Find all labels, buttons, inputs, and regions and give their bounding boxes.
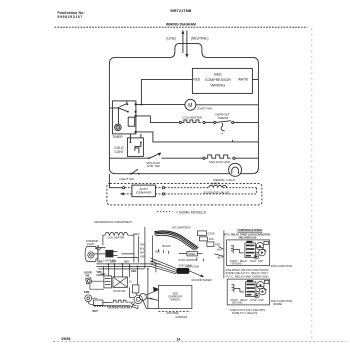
compressor detail box [158, 285, 192, 308]
svg-text:2150649: 2150649 [175, 315, 187, 319]
footer page number [176, 337, 180, 341]
label DEFROST THERM [215, 113, 230, 121]
resistor pictorial coil heater [102, 233, 134, 240]
wire unit compartment verticals [145, 227, 153, 269]
svg-text:RED: RED [193, 77, 200, 81]
svg-text:BLK: BLK [140, 247, 145, 250]
neutral conductor with down arrow [185, 30, 188, 58]
timer pictorial box [179, 251, 203, 256]
svg-text:GROUND: GROUND [231, 264, 242, 266]
header perforation rule [54, 26, 307, 28]
footer perforation rule [53, 340, 346, 342]
svg-text:SW: SW [85, 274, 90, 277]
label WATER [211, 183, 220, 186]
label RUN CAPACITOR box1 [271, 264, 292, 268]
compressor shell terminal circle [140, 287, 159, 309]
svg-text:4 PIN CONN: 4 PIN CONN [185, 265, 199, 268]
terminal icemaker right bottom [162, 193, 164, 195]
tiny labels cluster [100, 273, 132, 293]
svg-text:TIMER: TIMER [188, 253, 196, 256]
wire lamp to switch [94, 253, 106, 255]
connector plug [176, 265, 192, 274]
line conductor with up arrow [181, 30, 184, 53]
label RUN CAPACITOR SOME box2 [271, 299, 292, 306]
wire icemaker feed from border [109, 174, 122, 188]
wire bracket vertical [255, 188, 257, 194]
terminal defrost therm right [232, 121, 234, 123]
svg-text:WHT: WHT [150, 262, 156, 264]
svg-text:THERM: THERM [217, 116, 228, 120]
svg-text:BLU: BLU [124, 262, 129, 264]
junction dots bus [108, 263, 149, 270]
label COMPRESSOR WIRING underlined [237, 228, 262, 232]
tiny right terminal labels [217, 248, 223, 259]
resistor coil heater [182, 120, 201, 123]
svg-text:COLD CONTROL: COLD CONTROL [178, 259, 198, 262]
wire dashed bottom row [165, 193, 257, 195]
wire compressor feed vertical [140, 79, 142, 104]
label see compressor wiring [205, 71, 231, 87]
auto icemaker box [132, 185, 156, 197]
junction evap fan [141, 104, 143, 106]
harness thick cable [154, 231, 198, 250]
svg-text:GROUND SCREW: GROUND SCREW [191, 279, 212, 282]
harness fan-out diagonals [150, 258, 176, 274]
label BLACK [162, 244, 171, 248]
wire horizontal bus lines [96, 264, 160, 269]
label (LINE) [166, 36, 176, 40]
terminal icemaker feed [123, 187, 125, 189]
wire bus right of lamp [98, 245, 106, 260]
switch mullion heater [148, 153, 161, 159]
svg-text:WHT: WHT [217, 256, 223, 259]
ground lug circle [85, 295, 98, 303]
svg-text:CAP*: CAP* [258, 260, 264, 263]
svg-text:COMPRESSOR: COMPRESSOR [205, 77, 231, 82]
switch defrost thermostat [216, 121, 231, 135]
svg-text:WATER: WATER [211, 183, 220, 186]
svg-text:RUN CAPACITOR: RUN CAPACITOR [271, 264, 292, 268]
svg-text:START: START [230, 299, 238, 302]
svg-text:CONT: CONT [114, 150, 123, 154]
dotted wire lower [94, 306, 132, 308]
wire dashed to solenoid [165, 187, 209, 189]
box1 overload circles [254, 241, 268, 259]
svg-text:ORG: ORG [110, 262, 115, 264]
lamp interior light pictorial [85, 245, 101, 261]
svg-text:P.T.C. RELAY AND OVERLOAD: P.T.C. RELAY AND OVERLOAD [226, 275, 268, 279]
svg-text:COMPRESSOR WIRING: COMPRESSOR WIRING [237, 228, 262, 232]
label MULLION HTR. SW. [146, 161, 160, 168]
wire mullion row mid [161, 157, 203, 159]
run motor circle [131, 285, 143, 309]
svg-text:RELAY: RELAY [240, 299, 248, 302]
svg-text:(NEUTRAL): (NEUTRAL) [191, 36, 209, 40]
svg-text:TIMER: TIMER [112, 135, 123, 139]
svg-text:LIGHT SW.: LIGHT SW. [119, 177, 134, 181]
light switch pictorial block [103, 250, 117, 263]
wire timer to neutral bus row [136, 132, 259, 142]
svg-text:DOOR SW: DOOR SW [113, 290, 125, 293]
tick marks mid bus [158, 249, 203, 262]
wire solenoid to bracket [223, 187, 257, 189]
wire risers to compartment bus [117, 234, 138, 263]
svg-text:AND OVERLOAD: AND OVERLOAD [238, 235, 256, 239]
wire timer to border [109, 105, 141, 108]
wire compressor row right [252, 78, 258, 80]
header title WIRING DIAGRAM [166, 23, 196, 27]
label MULLION HTR. [209, 160, 230, 164]
label gnd [84, 291, 90, 294]
label RED [193, 77, 200, 81]
compressor wiring reference box [192, 68, 252, 93]
terminal block [93, 300, 103, 306]
compressor detail box 1 [226, 240, 269, 266]
label P.T.C. relay start run capacitor [224, 232, 270, 239]
svg-text:SEE: SEE [214, 71, 222, 76]
wire icemaker right bottom [155, 193, 162, 195]
svg-text:WHITE: WHITE [238, 77, 248, 81]
door switch box with X [113, 277, 128, 288]
label INTERIOR LIGHT [86, 239, 99, 246]
wire color labels [134, 233, 145, 259]
wire mullion row left [109, 157, 148, 159]
enclosure top bump [170, 43, 206, 57]
terminal mullion heater left [203, 157, 205, 159]
switch light [130, 169, 140, 174]
svg-text:LIGHT: LIGHT [87, 242, 95, 246]
svg-text:14: 14 [176, 337, 180, 341]
wire icemaker right top [155, 187, 162, 189]
mini labels mid cluster [155, 250, 199, 268]
svg-text:SOME USE A P.T.C. RELAY ONLY.: SOME USE A P.T.C. RELAY ONLY. [225, 271, 268, 275]
svg-text:5995253167: 5995253167 [57, 15, 82, 19]
wire coil heater step from timer [136, 116, 180, 123]
label COIL HEATER [182, 116, 203, 120]
box1 tiny labels [230, 260, 264, 266]
svg-text:BLACK: BLACK [162, 244, 171, 248]
label door switch [84, 272, 91, 278]
label (NEUTRAL) [191, 36, 209, 40]
left tiny labels [92, 310, 98, 313]
svg-text:CC: CC [129, 280, 133, 283]
wire bus drop verticals [103, 264, 155, 309]
label TIMER [112, 135, 123, 139]
svg-text:GRN: GRN [84, 291, 90, 294]
svg-text:05/98: 05/98 [61, 337, 70, 341]
svg-text:WIRING DIAGRAM: WIRING DIAGRAM [166, 23, 196, 27]
part number 2150649 [175, 315, 187, 319]
box2 ptc relay block [245, 280, 256, 296]
svg-text:COND: COND [207, 232, 214, 235]
svg-text:BRN: BRN [97, 262, 102, 264]
wire links lower cluster [88, 287, 138, 309]
terminal defrost therm left [214, 121, 216, 123]
resistor pictorial defrost heater [108, 300, 130, 309]
svg-text:COIL HEATER: COIL HEATER [107, 236, 124, 239]
wire cold control to timer [130, 134, 141, 143]
box2 tiny labels [230, 299, 264, 305]
wire between coil heater and defrost therm [205, 121, 214, 123]
label WHITE [238, 77, 248, 81]
fold perforation vertical [311, 28, 313, 338]
terminal mullion heater right [233, 157, 235, 159]
wire mullion row right [235, 157, 258, 159]
condenser fan boxes [197, 231, 220, 247]
svg-text:COIL HEATER: COIL HEATER [182, 116, 203, 120]
svg-text:SOME P.T.C. RELAYS.: SOME P.T.C. RELAYS. [232, 311, 258, 315]
wire connector to ground screw [189, 271, 212, 282]
motor evap fan M1 [185, 99, 196, 110]
svg-text:RED: RED [131, 271, 136, 273]
resistor mullion heater [205, 155, 231, 158]
label LIGHT SW. [119, 177, 134, 181]
svg-text:UNIT COMPARTMENT: UNIT COMPARTMENT [172, 225, 191, 229]
svg-text:HTR. SW.: HTR. SW. [147, 164, 160, 168]
header publication number [57, 11, 84, 19]
box1 ptc relay block [245, 241, 256, 258]
svg-text:(SOME): (SOME) [273, 302, 283, 306]
svg-text:WIRING: WIRING [171, 299, 180, 302]
control box left [104, 276, 112, 288]
svg-text:M: M [188, 103, 192, 109]
timer box T1 [112, 101, 135, 134]
label UNIT COMPARTMENT [172, 225, 191, 229]
wire icemaker arrow out [120, 192, 132, 195]
svg-text:TMR: TMR [100, 273, 105, 276]
wire evap fan row left [141, 104, 185, 106]
cold control box [127, 138, 143, 157]
motor timer [115, 124, 122, 131]
terminal coil heater right [203, 121, 205, 123]
note some models lines [225, 268, 268, 279]
svg-text:BLK: BLK [155, 250, 160, 253]
label SOLENOID VALVE [203, 190, 229, 194]
door switch pictorial [86, 278, 104, 290]
svg-text:ICEMAKER: ICEMAKER [136, 191, 153, 195]
svg-text:= SOME MODELS: = SOME MODELS [176, 210, 207, 214]
footnote capacitors [228, 308, 265, 315]
wire compressor row left [141, 78, 192, 80]
box1 terminal strip [231, 245, 244, 254]
svg-text:RED: RED [134, 233, 139, 236]
svg-text:OVLD: OVLD [250, 261, 257, 263]
svg-text:(LINE): (LINE) [166, 36, 176, 40]
wire riser to unit box2 [214, 230, 224, 278]
box2 terminal strip [232, 284, 244, 293]
wire defrost row right [234, 121, 259, 123]
wire lamp feed vertical [102, 235, 104, 245]
terminal coil heater left [179, 121, 181, 123]
svg-text:WHT: WHT [92, 310, 98, 313]
svg-text:EVAP. FAN: EVAP. FAN [197, 106, 212, 110]
svg-text:MRT21TNB: MRT21TNB [170, 9, 191, 13]
svg-text:START: START [230, 260, 238, 263]
dashed gnd wire under box [158, 311, 190, 315]
label REFRIGERATOR COMPARTMENT [94, 220, 132, 224]
label AUTO ICEMAKER [136, 187, 153, 195]
footer date [61, 337, 70, 341]
label COLD CONT [114, 146, 124, 154]
svg-text:RELAY: RELAY [240, 260, 248, 263]
terminal icemaker right top [162, 187, 164, 189]
svg-text:REFRIG. LIGHT: REFRIG. LIGHT [213, 178, 235, 182]
main enclosure box [109, 57, 258, 173]
svg-text:GRN: GRN [215, 243, 221, 246]
svg-text:M: M [117, 126, 119, 130]
pin terminals timer [135, 103, 137, 132]
lamp refrigerator light [229, 163, 242, 176]
header model number [170, 9, 191, 13]
svg-text:FAN: FAN [209, 238, 214, 241]
solenoid water valve [209, 185, 227, 187]
compressor detail box 2 [227, 279, 269, 305]
some models dashed enclosure [107, 183, 262, 205]
svg-text:GROUND: GROUND [232, 303, 243, 305]
box2 overload circles [255, 280, 269, 298]
svg-text:REFRIGERATOR COMPARTMENT: REFRIGERATOR COMPARTMENT [94, 220, 132, 224]
svg-text:BLK: BLK [217, 248, 222, 251]
svg-text:MULLION HTR.: MULLION HTR. [209, 160, 230, 164]
svg-text:OVLD: OVLD [250, 300, 257, 302]
label REFRIG. LIGHT [213, 178, 235, 182]
wire dashed to icemaker [125, 187, 132, 189]
wire evap fan row right [196, 104, 259, 106]
svg-text:WIRING: WIRING [210, 83, 225, 88]
tiny labels above bus [96, 262, 156, 277]
legend some models [157, 210, 207, 214]
svg-text:CAP*: CAP* [258, 299, 264, 302]
label EVAP. FAN [197, 106, 212, 110]
